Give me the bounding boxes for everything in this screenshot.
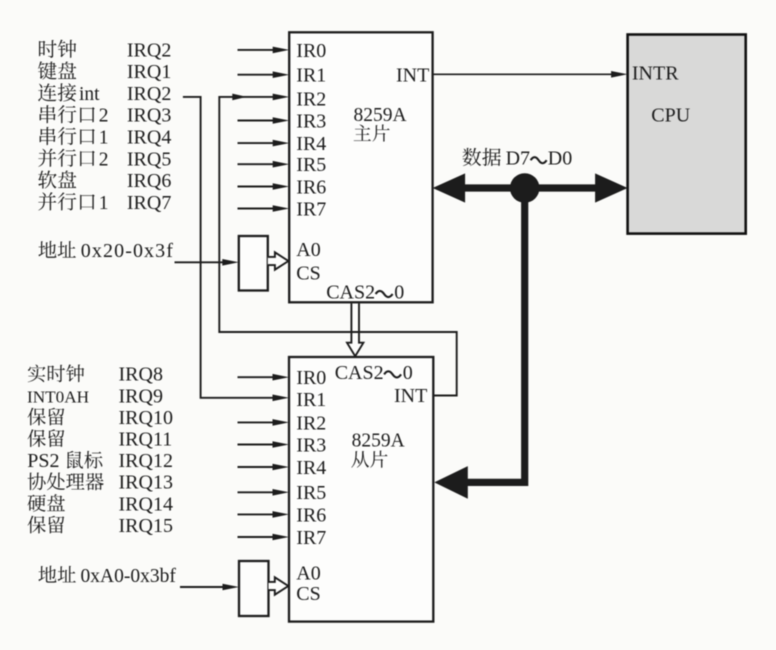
svg-text:D7: D7 [506, 148, 530, 170]
svg-text:IR2: IR2 [296, 412, 326, 434]
svg-text:IR6: IR6 [296, 176, 326, 198]
svg-text:0: 0 [394, 281, 404, 303]
svg-text:IR2: IR2 [296, 88, 326, 110]
svg-text:INTR: INTR [632, 62, 679, 84]
label IRQ2 row (master) [38, 83, 171, 105]
svg-text:IR0: IR0 [296, 40, 326, 62]
wire IRQ arrow to slave IR7 [238, 534, 290, 541]
wire address to slave decoder [180, 584, 239, 591]
svg-text:IRQ10: IRQ10 [119, 407, 173, 429]
label IRQ8 row (slave) [28, 364, 163, 386]
label 数据 D7~D0 [462, 148, 572, 170]
label IRQ15 row (slave) [28, 515, 173, 537]
label IRQ14 row (slave) [28, 493, 173, 515]
svg-text:IRQ5: IRQ5 [127, 148, 171, 170]
svg-text:IRQ3: IRQ3 [127, 105, 171, 127]
svg-text:8259A: 8259A [352, 430, 405, 451]
svg-text:CAS2: CAS2 [326, 281, 375, 303]
svg-text:0xA0-0x3bf: 0xA0-0x3bf [81, 566, 177, 587]
svg-text:D0: D0 [548, 148, 572, 170]
wire master INT to CPU INTR [433, 71, 628, 78]
svg-text:IRQ11: IRQ11 [119, 429, 173, 451]
svg-text:IRQ4: IRQ4 [127, 127, 171, 149]
svg-text:IR4: IR4 [296, 133, 326, 155]
data bus junction dot [510, 173, 540, 203]
wire IRQ arrow to master IR5 [238, 161, 290, 168]
hollow arrow CAS2~0 master to slave [347, 304, 363, 357]
wire IRQ arrow to slave IR0 [238, 374, 290, 381]
svg-text:IRQ2: IRQ2 [127, 39, 171, 61]
wire IRQ arrow to slave IR2 [238, 419, 290, 426]
svg-text:IRQ9: IRQ9 [119, 385, 163, 407]
svg-text:CS: CS [296, 583, 320, 605]
wire IRQ arrow to master IR1 [238, 71, 290, 78]
wire IRQ arrow to master IR7 [238, 205, 290, 212]
8259A slave chip U2 [289, 357, 433, 622]
svg-text:IR1: IR1 [296, 389, 326, 411]
svg-text:IR5: IR5 [296, 154, 326, 176]
label IRQ11 row (slave) [28, 429, 173, 451]
svg-text:IRQ14: IRQ14 [119, 493, 173, 515]
wire IRQ arrow to master IR2 [238, 94, 290, 101]
address decoder box (master) [239, 236, 268, 291]
hollow arrow decoder to slave A0/CS [269, 577, 289, 594]
data bus thick double arrow master-CPU [433, 173, 628, 202]
svg-text:IRQ8: IRQ8 [119, 364, 163, 386]
svg-text:IR6: IR6 [296, 504, 326, 526]
svg-text:int: int [79, 84, 100, 105]
hollow arrow decoder to master A0/CS [268, 252, 289, 269]
svg-text:A0: A0 [296, 239, 320, 261]
label address 0x20-0x3f [38, 240, 174, 262]
wire IRQ arrow to master IR0 [238, 47, 290, 54]
svg-text:8259A: 8259A [354, 105, 407, 126]
wire from 连接int label down to slave IR1 [183, 97, 289, 401]
wire IRQ arrow to slave IR3 [238, 441, 290, 448]
svg-text:1: 1 [99, 128, 109, 149]
svg-text:IRQ1: IRQ1 [127, 61, 171, 83]
svg-text:IR3: IR3 [296, 434, 326, 456]
svg-text:IRQ6: IRQ6 [127, 170, 171, 192]
svg-text:IR5: IR5 [296, 482, 326, 504]
wire IRQ arrow to master IR6 [238, 183, 290, 190]
wire IRQ arrow to master IR4 [238, 140, 290, 147]
svg-text:INT: INT [396, 64, 429, 86]
label IRQ7 row (master) [38, 192, 171, 214]
svg-text:IRQ13: IRQ13 [119, 472, 173, 494]
svg-text:IRQ2: IRQ2 [127, 83, 171, 105]
label IRQ13 row (slave) [28, 472, 173, 494]
8259A master chip U1 [289, 32, 432, 303]
svg-text:IRQ15: IRQ15 [119, 515, 173, 537]
label IRQ6 row (master) [38, 170, 171, 192]
svg-text:IR4: IR4 [296, 457, 326, 479]
svg-text:IR0: IR0 [296, 367, 326, 389]
label IRQ9 row (slave) [27, 385, 163, 407]
svg-text:INT0AH: INT0AH [27, 387, 89, 406]
address decoder box (slave) [239, 561, 269, 616]
wire address to master decoder [175, 259, 239, 266]
svg-text:IR7: IR7 [296, 198, 326, 220]
svg-text:IR3: IR3 [296, 110, 326, 132]
wire slave INT to master IR2 [219, 94, 456, 396]
svg-text:IRQ7: IRQ7 [127, 192, 171, 214]
svg-text:IR7: IR7 [296, 527, 326, 549]
svg-text:2: 2 [99, 106, 109, 127]
svg-text:PS2: PS2 [27, 450, 59, 472]
svg-text:2: 2 [99, 149, 109, 170]
label IRQ3 row (master) [40, 105, 172, 127]
label address 0xA0-0x3bf [38, 566, 176, 587]
wire IRQ arrow to slave IR4 [238, 464, 290, 471]
label IRQ5 row (master) [38, 148, 171, 170]
svg-text:CPU: CPU [651, 105, 690, 127]
wire IRQ arrow to slave IR6 [238, 511, 290, 518]
svg-text:0: 0 [403, 362, 413, 384]
label IRQ1 row (master) [38, 61, 171, 83]
wire IRQ arrow to master IR3 [238, 117, 290, 124]
CPU block [628, 35, 746, 234]
svg-text:CAS2: CAS2 [335, 362, 384, 384]
label IRQ10 row (slave) [28, 407, 173, 429]
svg-text:A0: A0 [296, 563, 320, 585]
data bus thick branch to slave [434, 188, 524, 499]
svg-text:INT: INT [394, 385, 427, 407]
wire IRQ arrow to slave IR5 [238, 489, 290, 496]
label IRQ12 row (slave) [27, 450, 173, 472]
label IRQ4 row (master) [40, 127, 172, 149]
svg-text:IR1: IR1 [296, 65, 326, 87]
svg-text:1: 1 [99, 193, 109, 214]
label IRQ2 row (master) [39, 39, 171, 61]
svg-text:IRQ12: IRQ12 [119, 450, 173, 472]
svg-text:0x20-0x3f: 0x20-0x3f [81, 240, 174, 262]
svg-text:CS: CS [296, 263, 320, 285]
